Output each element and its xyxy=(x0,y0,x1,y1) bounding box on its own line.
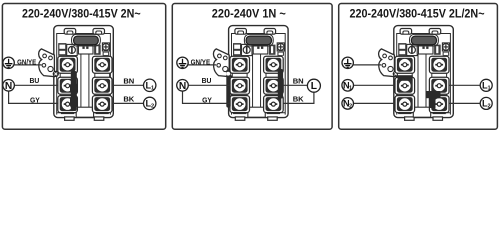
wire N2 panel 3 xyxy=(353,102,395,104)
centre channel xyxy=(417,54,419,113)
clamp screw tab right xyxy=(93,29,105,35)
svg-text:GY: GY xyxy=(30,95,40,104)
node N1 panel 3 xyxy=(342,80,354,92)
centre channel xyxy=(80,54,82,113)
mounting foot xyxy=(94,117,104,120)
screw terminal T4 xyxy=(264,77,284,94)
spacer xyxy=(266,92,281,97)
wire BU panel 2 xyxy=(188,84,230,86)
node L2 panel 3 xyxy=(480,97,492,109)
wire BK xyxy=(113,102,144,104)
node N panel 1 xyxy=(3,80,15,92)
spacer xyxy=(232,73,247,78)
screw terminal T5 xyxy=(58,96,78,113)
link band right panel 3 (rows 2-3) xyxy=(426,91,441,98)
clamp recess xyxy=(410,34,439,46)
centre post xyxy=(248,107,265,117)
plate base mark xyxy=(433,112,446,114)
clamp screw tab right xyxy=(429,29,441,35)
link bar left panel 2 xyxy=(226,70,230,108)
svg-text:N: N xyxy=(5,81,12,92)
svg-text:BK: BK xyxy=(123,95,134,104)
wire GN/YE panel 2 xyxy=(187,64,216,66)
wire N1 panel 3 xyxy=(353,84,395,86)
screw terminal T1 xyxy=(58,56,78,73)
terminal block 1 xyxy=(39,26,114,118)
svg-text:BN: BN xyxy=(293,76,304,85)
screw terminal T2 xyxy=(429,56,449,73)
wire BU xyxy=(14,84,59,86)
spacer xyxy=(232,92,247,97)
spacer xyxy=(95,92,110,97)
svg-text:BU: BU xyxy=(30,76,40,85)
wire GN/YE xyxy=(13,64,41,66)
node L panel 2 xyxy=(307,79,320,92)
svg-text:220-240V 1N ~: 220-240V 1N ~ xyxy=(212,7,286,20)
spacer xyxy=(60,92,75,97)
screw terminal T6 xyxy=(264,96,284,113)
mounting foot xyxy=(235,117,245,120)
svg-text:GY: GY xyxy=(202,95,212,104)
node N2 panel 3 xyxy=(342,98,354,110)
screw terminal T2 xyxy=(92,56,112,73)
link bar (N bridge) panel 1 xyxy=(71,71,77,111)
panel frame 2 xyxy=(172,4,332,130)
svg-text:L: L xyxy=(311,81,317,92)
plate base mark xyxy=(267,112,280,114)
svg-text:2: 2 xyxy=(151,104,154,110)
clamp screw tab left xyxy=(235,29,247,35)
mounting foot xyxy=(405,117,415,120)
svg-text:2: 2 xyxy=(349,104,352,110)
spacer xyxy=(397,73,412,78)
screw terminal T6 xyxy=(92,96,112,113)
cable clamp (dark) xyxy=(74,36,99,45)
node L2 panel 1 xyxy=(144,97,156,109)
svg-text:N: N xyxy=(179,81,186,92)
plate base mark xyxy=(233,112,246,114)
wire PE panel 3 xyxy=(352,64,381,66)
spacer xyxy=(397,92,412,97)
spacer xyxy=(432,73,447,78)
link bar right panel 2 xyxy=(278,69,283,99)
spacer xyxy=(60,73,75,78)
screw terminal T1 xyxy=(230,56,250,73)
svg-text:220-240V/380-415V 2N~: 220-240V/380-415V 2N~ xyxy=(22,7,141,20)
terminal block 3 xyxy=(379,26,454,118)
panel frame 3 xyxy=(339,4,498,130)
plate base mark xyxy=(61,112,74,114)
svg-text:1: 1 xyxy=(151,86,154,92)
spacer xyxy=(95,73,110,78)
screw terminal T5 xyxy=(230,96,250,113)
screw terminal T3 xyxy=(58,77,78,94)
svg-text:GN/YE: GN/YE xyxy=(17,58,36,67)
clamp recess xyxy=(72,34,101,46)
screw terminal T3 xyxy=(230,77,250,94)
mounting foot xyxy=(65,117,75,120)
wire BN xyxy=(113,84,144,86)
clamp screw tab right xyxy=(264,29,276,35)
spacer xyxy=(266,73,281,78)
centre channel xyxy=(252,54,254,113)
wire L1 panel 3 xyxy=(449,84,480,86)
mounting foot xyxy=(433,117,443,120)
screw terminal T2 xyxy=(264,56,284,73)
wire BK panel 2 xyxy=(283,92,314,103)
wire L2 panel 3 xyxy=(449,102,480,104)
node L1 panel 1 xyxy=(144,79,156,91)
PE symbol panel 1 xyxy=(3,57,14,68)
mounting foot xyxy=(268,117,278,120)
PE symbol panel 2 xyxy=(177,57,188,68)
cable clamp (dark) xyxy=(411,36,436,45)
clamp screw tab left xyxy=(400,29,412,35)
svg-text:GN/YE: GN/YE xyxy=(191,58,211,67)
screw terminal T3 xyxy=(395,77,415,94)
cable clamp (dark) xyxy=(246,36,271,45)
screw terminal T4 xyxy=(429,77,449,94)
link band left panel 3 (rows 1-2) xyxy=(398,75,413,81)
svg-text:220-240V/380-415V 2L/2N~: 220-240V/380-415V 2L/2N~ xyxy=(350,7,485,20)
svg-text:1: 1 xyxy=(488,86,491,92)
wire BN panel 2 xyxy=(283,84,307,86)
panel frame 1 xyxy=(2,4,165,130)
spacer xyxy=(432,92,447,97)
svg-text:BU: BU xyxy=(202,76,212,85)
terminal block 2 xyxy=(213,26,288,118)
centre post xyxy=(76,107,93,117)
wire GY xyxy=(9,91,59,104)
PE symbol panel 3 xyxy=(342,57,353,68)
plate base mark xyxy=(96,112,109,114)
screw terminal T6 xyxy=(429,96,449,113)
svg-text:2: 2 xyxy=(488,104,491,110)
plate base mark xyxy=(398,112,411,114)
svg-text:BN: BN xyxy=(123,76,134,85)
svg-text:BK: BK xyxy=(293,95,304,104)
clamp recess xyxy=(244,34,273,46)
svg-text:1: 1 xyxy=(349,86,352,92)
node N panel 2 xyxy=(177,80,189,92)
centre post xyxy=(413,107,430,117)
node L1 panel 3 xyxy=(480,79,492,91)
screw terminal T4 xyxy=(92,77,112,94)
clamp screw tab left xyxy=(64,29,76,35)
screw terminal T1 xyxy=(395,56,415,73)
wire GY panel 2 xyxy=(183,91,230,104)
screw terminal T5 xyxy=(395,96,415,113)
